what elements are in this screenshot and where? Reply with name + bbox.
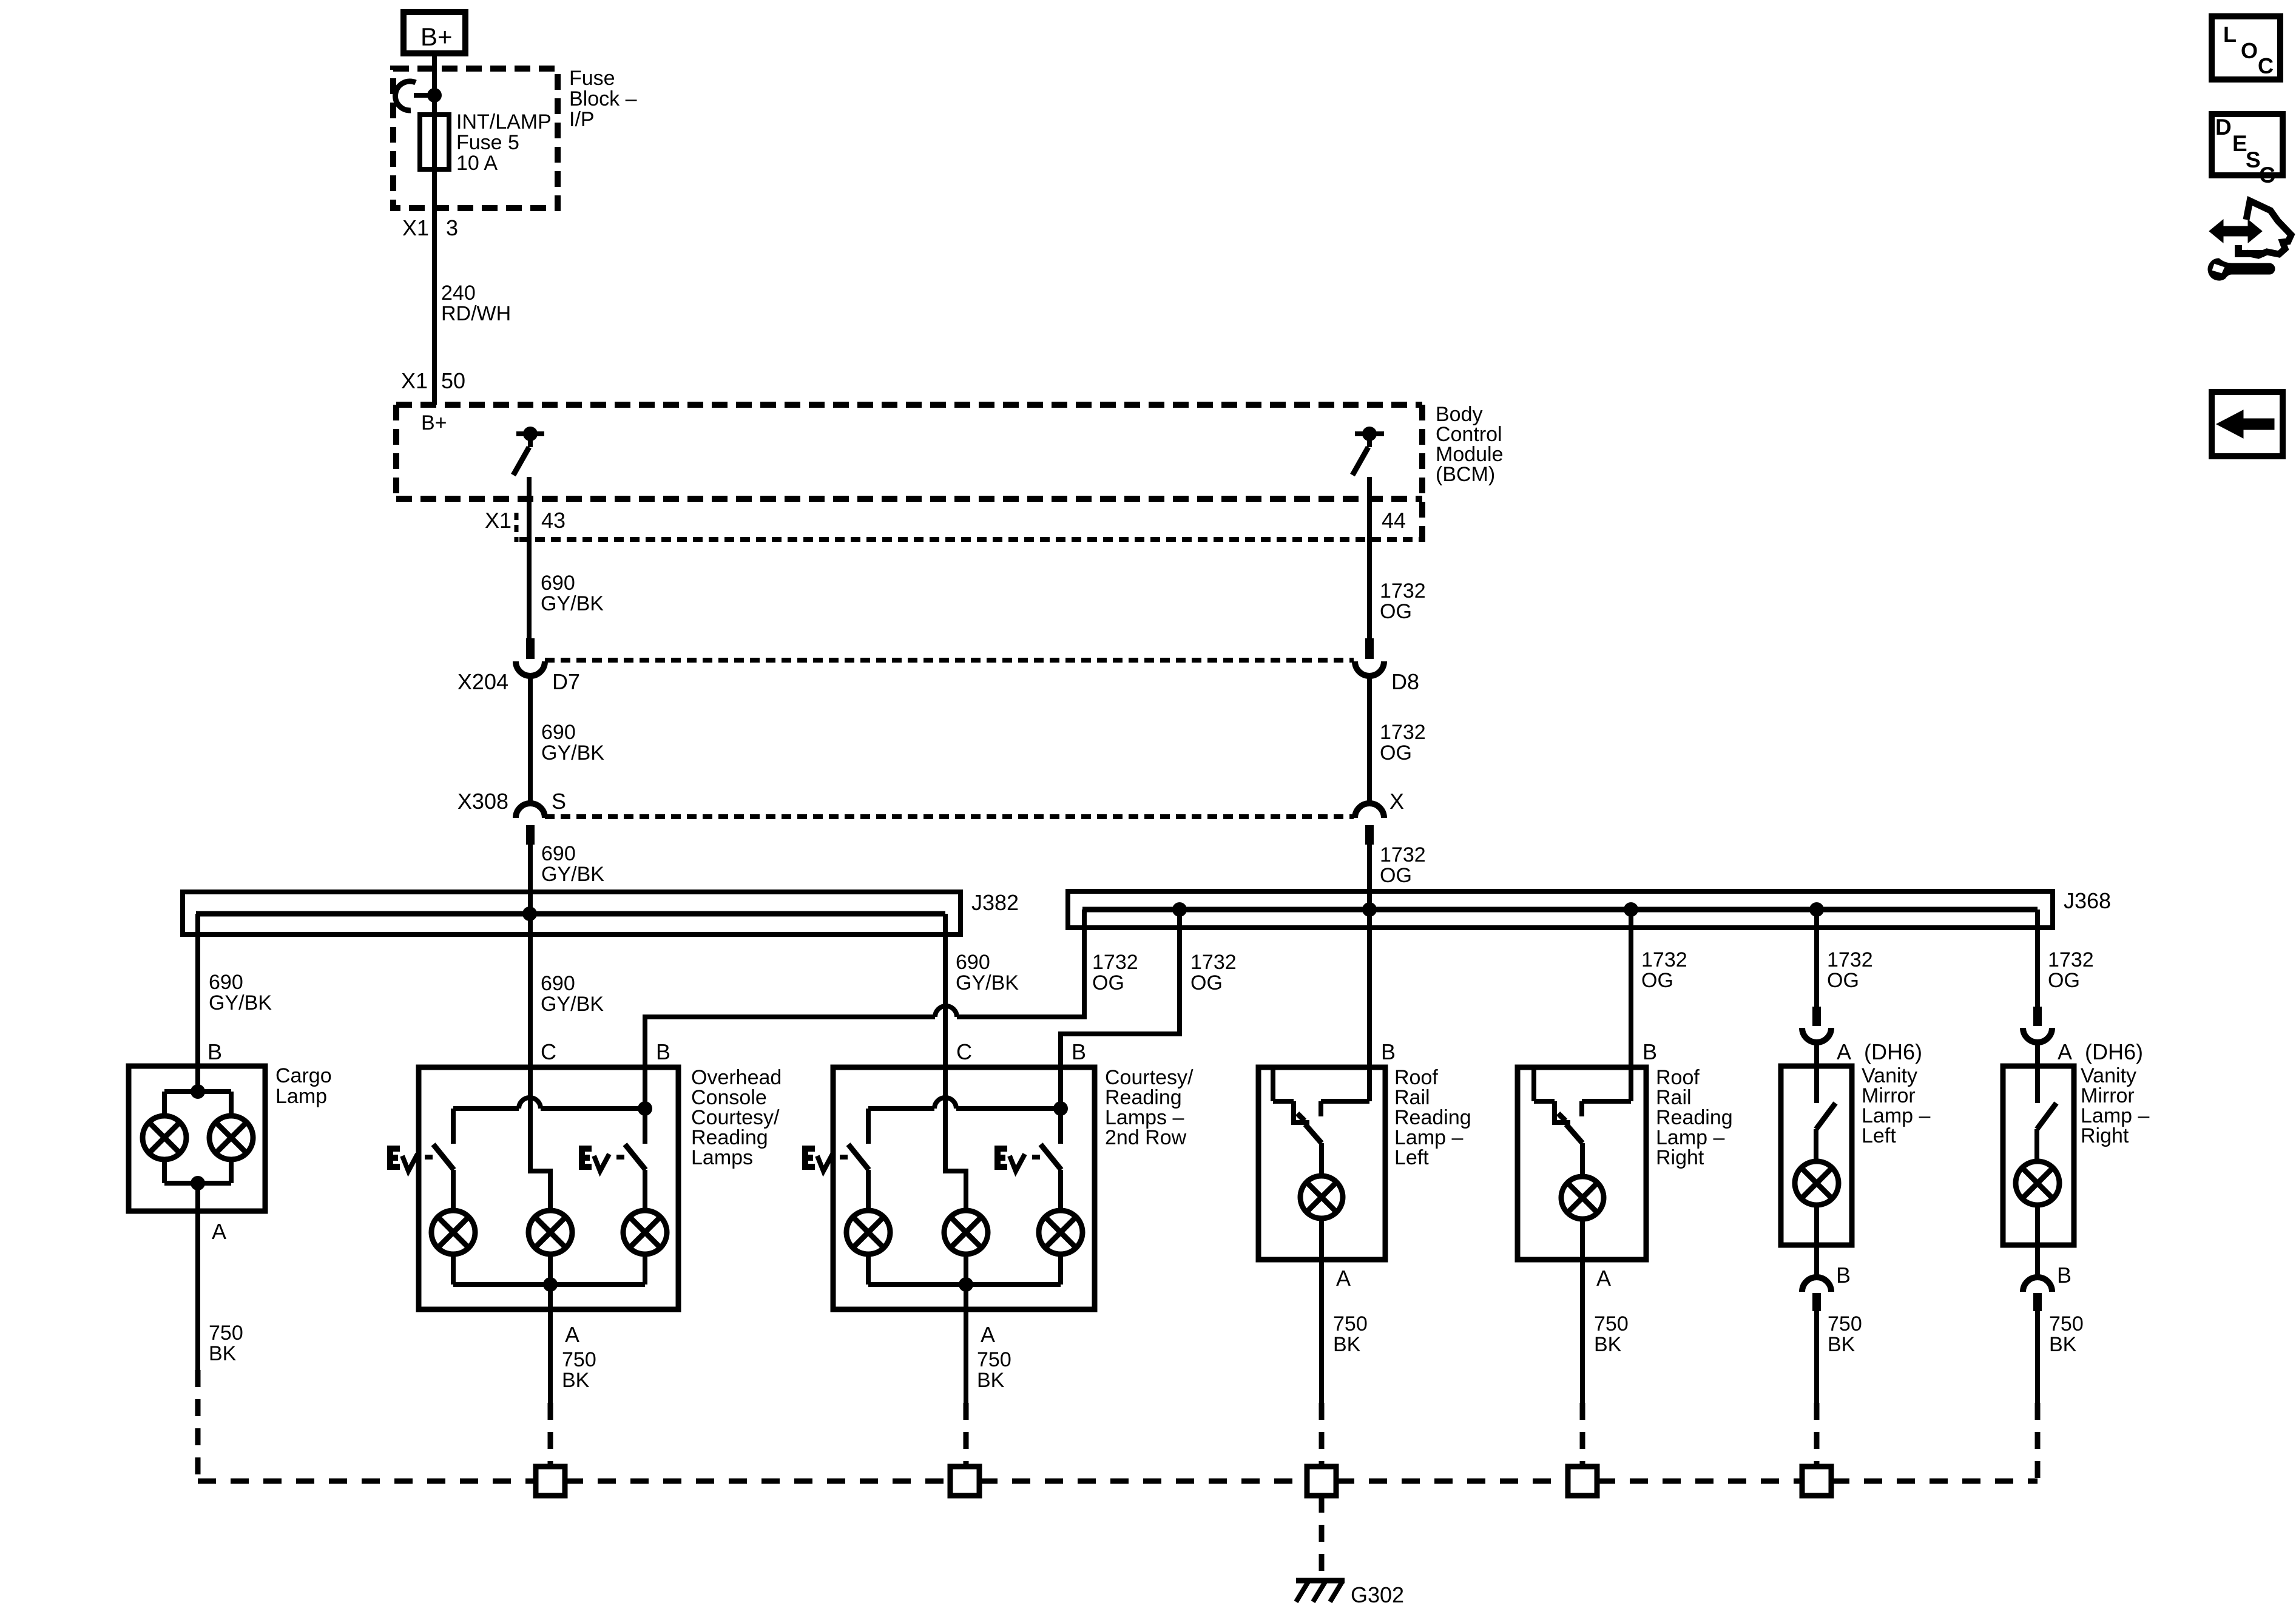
ground lead to G302 [1319,1496,1325,1578]
ground splice square 2nd row [950,1467,979,1496]
roof rail left internal switch [1271,1070,1275,1101]
ground wire roof rail left dashed drop [1319,1403,1325,1467]
wire J368 tap to 2nd row lamps pin B (1732 OG) [1061,910,1180,1110]
cargo lamp internal parallel loop [164,1089,231,1094]
overhead right switch door symbol E [582,1149,592,1167]
svg-text:B: B [1072,1039,1086,1064]
svg-text:750: 750 [209,1322,243,1345]
vanity right internal switch [2035,1068,2040,1103]
icon box back arrow [2212,392,2283,456]
junction node J368 tap 2 (BCM feed entry) [1362,902,1377,917]
svg-text:J368: J368 [2064,888,2111,913]
roof rail reading lamp right box [1518,1067,1646,1260]
fuse INT/LAMP Fuse 5 10A symbol [420,115,449,169]
roof rail right lamp [1580,1143,1585,1177]
svg-text:S: S [2246,147,2261,172]
svg-text:RD/WH: RD/WH [441,302,511,325]
svg-text:OG: OG [1380,600,1412,623]
inline connector at vanity right pin A [2033,1007,2042,1026]
2nd row center lamp [944,1210,988,1254]
connector X308 terminal X (socket and blade) [1355,803,1384,818]
wire vanity right pin B down [2035,1204,2040,1278]
svg-text:A: A [1596,1266,1611,1291]
inline connector below vanity left [1802,1277,1831,1292]
junction node on feed wire at breaker tap [427,88,442,103]
ground wire roof rail right dashed drop [1580,1403,1585,1467]
fuse block dashed outline (Fuse Block - I/P) [393,69,558,208]
svg-text:O: O [2241,38,2258,63]
cargo lamp bulb left [143,1116,186,1160]
overhead left lamp [451,1170,456,1212]
svg-text:750: 750 [977,1348,1011,1371]
svg-text:(DH6): (DH6) [2085,1039,2143,1064]
svg-text:1732: 1732 [1380,579,1426,603]
junction node overhead bottom [543,1277,558,1292]
svg-text:BK: BK [562,1369,590,1392]
connector X204 terminal D8 (blade and socket) [1365,638,1374,659]
svg-text:750: 750 [1333,1312,1368,1335]
vanity left lamp [1814,1129,1818,1164]
ground splice square roof rail right [1568,1467,1597,1496]
svg-text:E: E [2232,131,2247,156]
svg-text:OG: OG [1380,864,1412,887]
svg-text:OG: OG [1092,971,1124,994]
overhead left switch door symbol E [390,1149,400,1167]
wire vanity left pin B down [1814,1204,1819,1278]
svg-text:D: D [2215,115,2232,140]
svg-text:C: C [541,1039,556,1064]
svg-text:B: B [208,1039,222,1064]
ground symbol G302 [1296,1578,1345,1584]
ground splice square roof rail left [1307,1467,1336,1496]
connector X308 terminal S (socket and blade) [516,803,545,818]
svg-text:1732: 1732 [1641,948,1687,971]
overhead center lamp [528,1210,572,1254]
splice pack J368 outline [1068,891,2053,928]
connector X204 terminal D7 (blade and socket) [526,638,535,659]
svg-text:43: 43 [541,508,566,533]
wire J368 tap to vanity left (1732 OG) [1814,910,1819,1008]
overhead bottom rail [451,1253,456,1284]
svg-text:D8: D8 [1391,669,1419,694]
svg-text:INT/LAMP: INT/LAMP [456,110,552,133]
svg-text:A: A [565,1322,579,1347]
svg-text:240: 240 [441,282,476,305]
wire from B+ through fuse down to BCM [432,53,437,405]
cargo lamp bulb right [209,1116,253,1160]
svg-text:C: C [2258,53,2274,78]
svg-text:GY/BK: GY/BK [541,592,604,615]
svg-text:OG: OG [1641,969,1673,992]
svg-text:OG: OG [1380,741,1412,765]
overhead right switch [643,1109,647,1144]
ground wire vanity left dashed drop [1814,1403,1820,1467]
wire 690 GY/BK X204 to X308 [528,676,533,803]
svg-text:X1: X1 [485,508,512,533]
ground bus dashed rail [565,1479,950,1484]
wire BCM pin 43 down (690 GY/BK) [527,477,532,638]
junction node 2nd row rail right [1053,1101,1068,1116]
svg-text:(DH6): (DH6) [1864,1039,1922,1064]
wire 1732 OG X204 to X308 [1367,676,1372,803]
svg-text:OG: OG [1190,971,1223,994]
BCM internal driver switch left [516,431,544,436]
svg-text:Right: Right [2081,1124,2129,1147]
vanity mirror lamp left box [1781,1066,1852,1245]
icon hand with double arrow and wrench [2209,220,2262,243]
overhead right lamp [643,1170,647,1212]
svg-text:10 A: 10 A [456,152,498,175]
wire J368 tap to roof rail right pin B (1732 OG) [1629,910,1633,1101]
svg-text:X204: X204 [458,669,508,694]
2nd row right lamp [1058,1170,1063,1212]
svg-text:690: 690 [541,572,575,595]
junction node J368 tap 3 [1624,902,1638,917]
svg-text:1732: 1732 [1827,948,1873,971]
svg-text:2nd Row: 2nd Row [1105,1126,1187,1149]
svg-text:S: S [552,789,566,814]
courtesy reading lamps 2nd row box [833,1067,1095,1309]
svg-text:Fuse: Fuse [569,67,615,90]
svg-text:A: A [1336,1266,1351,1291]
junction node cargo top [191,1084,205,1099]
svg-text:J382: J382 [971,890,1019,915]
battery feed B+ terminal box [403,12,465,53]
wire roof rail left pin A down (750 BK) [1319,1218,1324,1403]
ground splice square vanity left [1802,1467,1831,1496]
svg-text:GY/BK: GY/BK [541,993,604,1016]
vanity mirror lamp right box [2003,1066,2074,1245]
svg-text:D7: D7 [552,669,580,694]
ground splice square overhead [536,1467,565,1496]
inline connector at vanity left pin A [1812,1007,1821,1026]
svg-text:Fuse 5: Fuse 5 [456,131,519,154]
2nd row left lamp [866,1170,871,1212]
svg-text:B: B [1381,1039,1396,1064]
svg-text:A: A [212,1219,226,1244]
wire J382 left tap to cargo lamp pin B (690 GY/BK) [195,914,200,1093]
svg-text:OG: OG [2048,969,2080,992]
svg-text:B+: B+ [420,22,453,51]
svg-text:750: 750 [2049,1312,2084,1335]
svg-text:Left: Left [1394,1146,1429,1169]
connector X308 dashed tie line [545,814,1354,819]
junction node 2nd row bottom [959,1277,973,1292]
svg-text:1732: 1732 [2048,948,2094,971]
svg-text:GY/BK: GY/BK [209,991,272,1014]
wire roof rail right pin A down (750 BK) [1580,1219,1585,1403]
svg-text:GY/BK: GY/BK [541,863,604,886]
svg-text:1732: 1732 [1092,951,1138,974]
wire J368 right end tap to vanity right (1732 OG) [2035,910,2040,1008]
svg-text:Right: Right [1656,1146,1704,1169]
svg-text:GY/BK: GY/BK [541,741,604,765]
svg-text:1732: 1732 [1380,721,1426,744]
svg-text:A: A [1837,1039,1851,1064]
svg-text:C: C [956,1039,972,1064]
circuit breaker hook symbol in fuse block [396,81,416,110]
Body Control Module dashed box [396,402,1422,408]
svg-text:X1: X1 [401,368,428,393]
BCM internal driver switch right [1355,431,1384,436]
svg-text:L: L [2223,22,2237,47]
svg-text:X1: X1 [402,215,429,240]
wire BCM pin 44 down (1732 OG) [1367,477,1372,638]
svg-text:Cargo: Cargo [275,1064,332,1087]
connector X1 pin row under BCM [515,513,519,542]
svg-text:BK: BK [209,1342,237,1365]
ground wire overhead dashed drop [548,1403,553,1467]
wire J382 right tap to 2nd row lamps pin C (690 GY/BK) [945,914,966,1212]
ground wire cargo dashed drop [195,1370,201,1479]
svg-text:B: B [1836,1263,1851,1288]
svg-text:OG: OG [1827,969,1859,992]
wire cargo lamp pin A down (750 BK) [195,1183,200,1370]
svg-text:BK: BK [1828,1333,1855,1356]
svg-text:BK: BK [977,1369,1005,1392]
wire J368 left end tap to overhead console pin B (1732 OG) with hop over 690 wire [957,910,1084,1017]
wire X308 S to J382 and on to overhead console pin C [530,845,550,1212]
svg-text:BK: BK [1333,1333,1361,1356]
splice pack J382 bus bar [196,911,945,917]
icon box DESC [2212,114,2283,175]
junction node J368 tap 4 [1809,902,1824,917]
svg-text:44: 44 [1382,508,1406,533]
svg-text:1732: 1732 [1380,843,1426,866]
wire overhead pin A down (750 BK) [548,1284,553,1403]
junction node overhead rail right [638,1101,652,1116]
svg-text:GY/BK: GY/BK [956,971,1019,994]
svg-text:BK: BK [2049,1333,2077,1356]
svg-text:690: 690 [541,721,576,744]
svg-text:Left: Left [1862,1124,1896,1147]
svg-text:Lamps: Lamps [691,1146,753,1169]
svg-text:C: C [2259,163,2275,187]
svg-text:(BCM): (BCM) [1436,463,1495,486]
roof rail right internal switch [1531,1070,1536,1101]
svg-text:690: 690 [209,971,243,994]
wire 2nd row pin A down (750 BK) [964,1284,968,1403]
junction node J368 tap 1 [1172,902,1187,917]
svg-text:G302: G302 [1351,1582,1404,1607]
junction node cargo bottom [191,1176,205,1190]
svg-text:750: 750 [562,1348,596,1371]
svg-text:B+: B+ [421,411,447,434]
svg-text:690: 690 [541,972,575,995]
svg-text:750: 750 [1828,1312,1862,1335]
svg-text:750: 750 [1594,1312,1629,1335]
svg-text:X308: X308 [458,789,508,814]
vanity left internal switch [1814,1068,1819,1103]
svg-text:B: B [2057,1263,2071,1288]
wire BCM 1732 OG through J368 to roof rail left pin B [1367,845,1372,1101]
splice pack J368 bus bar [1082,907,2038,913]
connector X204 dashed tie line [545,658,1354,663]
roof rail left lamp [1319,1143,1324,1177]
svg-text:1732: 1732 [1190,951,1237,974]
svg-text:I/P: I/P [569,108,595,131]
svg-text:690: 690 [956,951,990,974]
2nd row bottom rail [866,1253,871,1284]
svg-text:B: B [656,1039,670,1064]
svg-text:X: X [1389,789,1404,814]
overhead console internal feed rail with hop [453,1106,519,1111]
svg-text:50: 50 [441,368,465,393]
svg-text:BK: BK [1594,1333,1622,1356]
roof rail reading lamp left box [1258,1067,1385,1260]
svg-text:B: B [1643,1039,1657,1064]
svg-text:Lamp: Lamp [275,1085,327,1108]
2nd row right switch door symbol E [998,1149,1007,1167]
splice pack J382 outline [183,892,961,934]
svg-text:A: A [2058,1039,2072,1064]
ground wire 2nd row dashed drop [964,1403,969,1467]
junction node J382 center tap [522,906,537,921]
2nd row left switch [866,1109,871,1144]
2nd row left switch door symbol E [805,1149,815,1167]
overhead console box [419,1067,678,1309]
svg-text:Block –: Block – [569,87,637,110]
2nd row right switch [1058,1109,1063,1144]
svg-text:A: A [981,1322,995,1347]
svg-text:690: 690 [541,842,576,865]
inline connector below vanity right [2023,1277,2052,1292]
svg-text:3: 3 [446,215,458,240]
vanity right lamp [2034,1129,2039,1164]
ground wire vanity right dashed drop [2035,1403,2041,1479]
overhead left switch [451,1109,456,1144]
cargo lamp box [129,1066,265,1211]
2nd row internal feed rail with hop [868,1106,934,1111]
icon box LOC [2212,16,2280,79]
